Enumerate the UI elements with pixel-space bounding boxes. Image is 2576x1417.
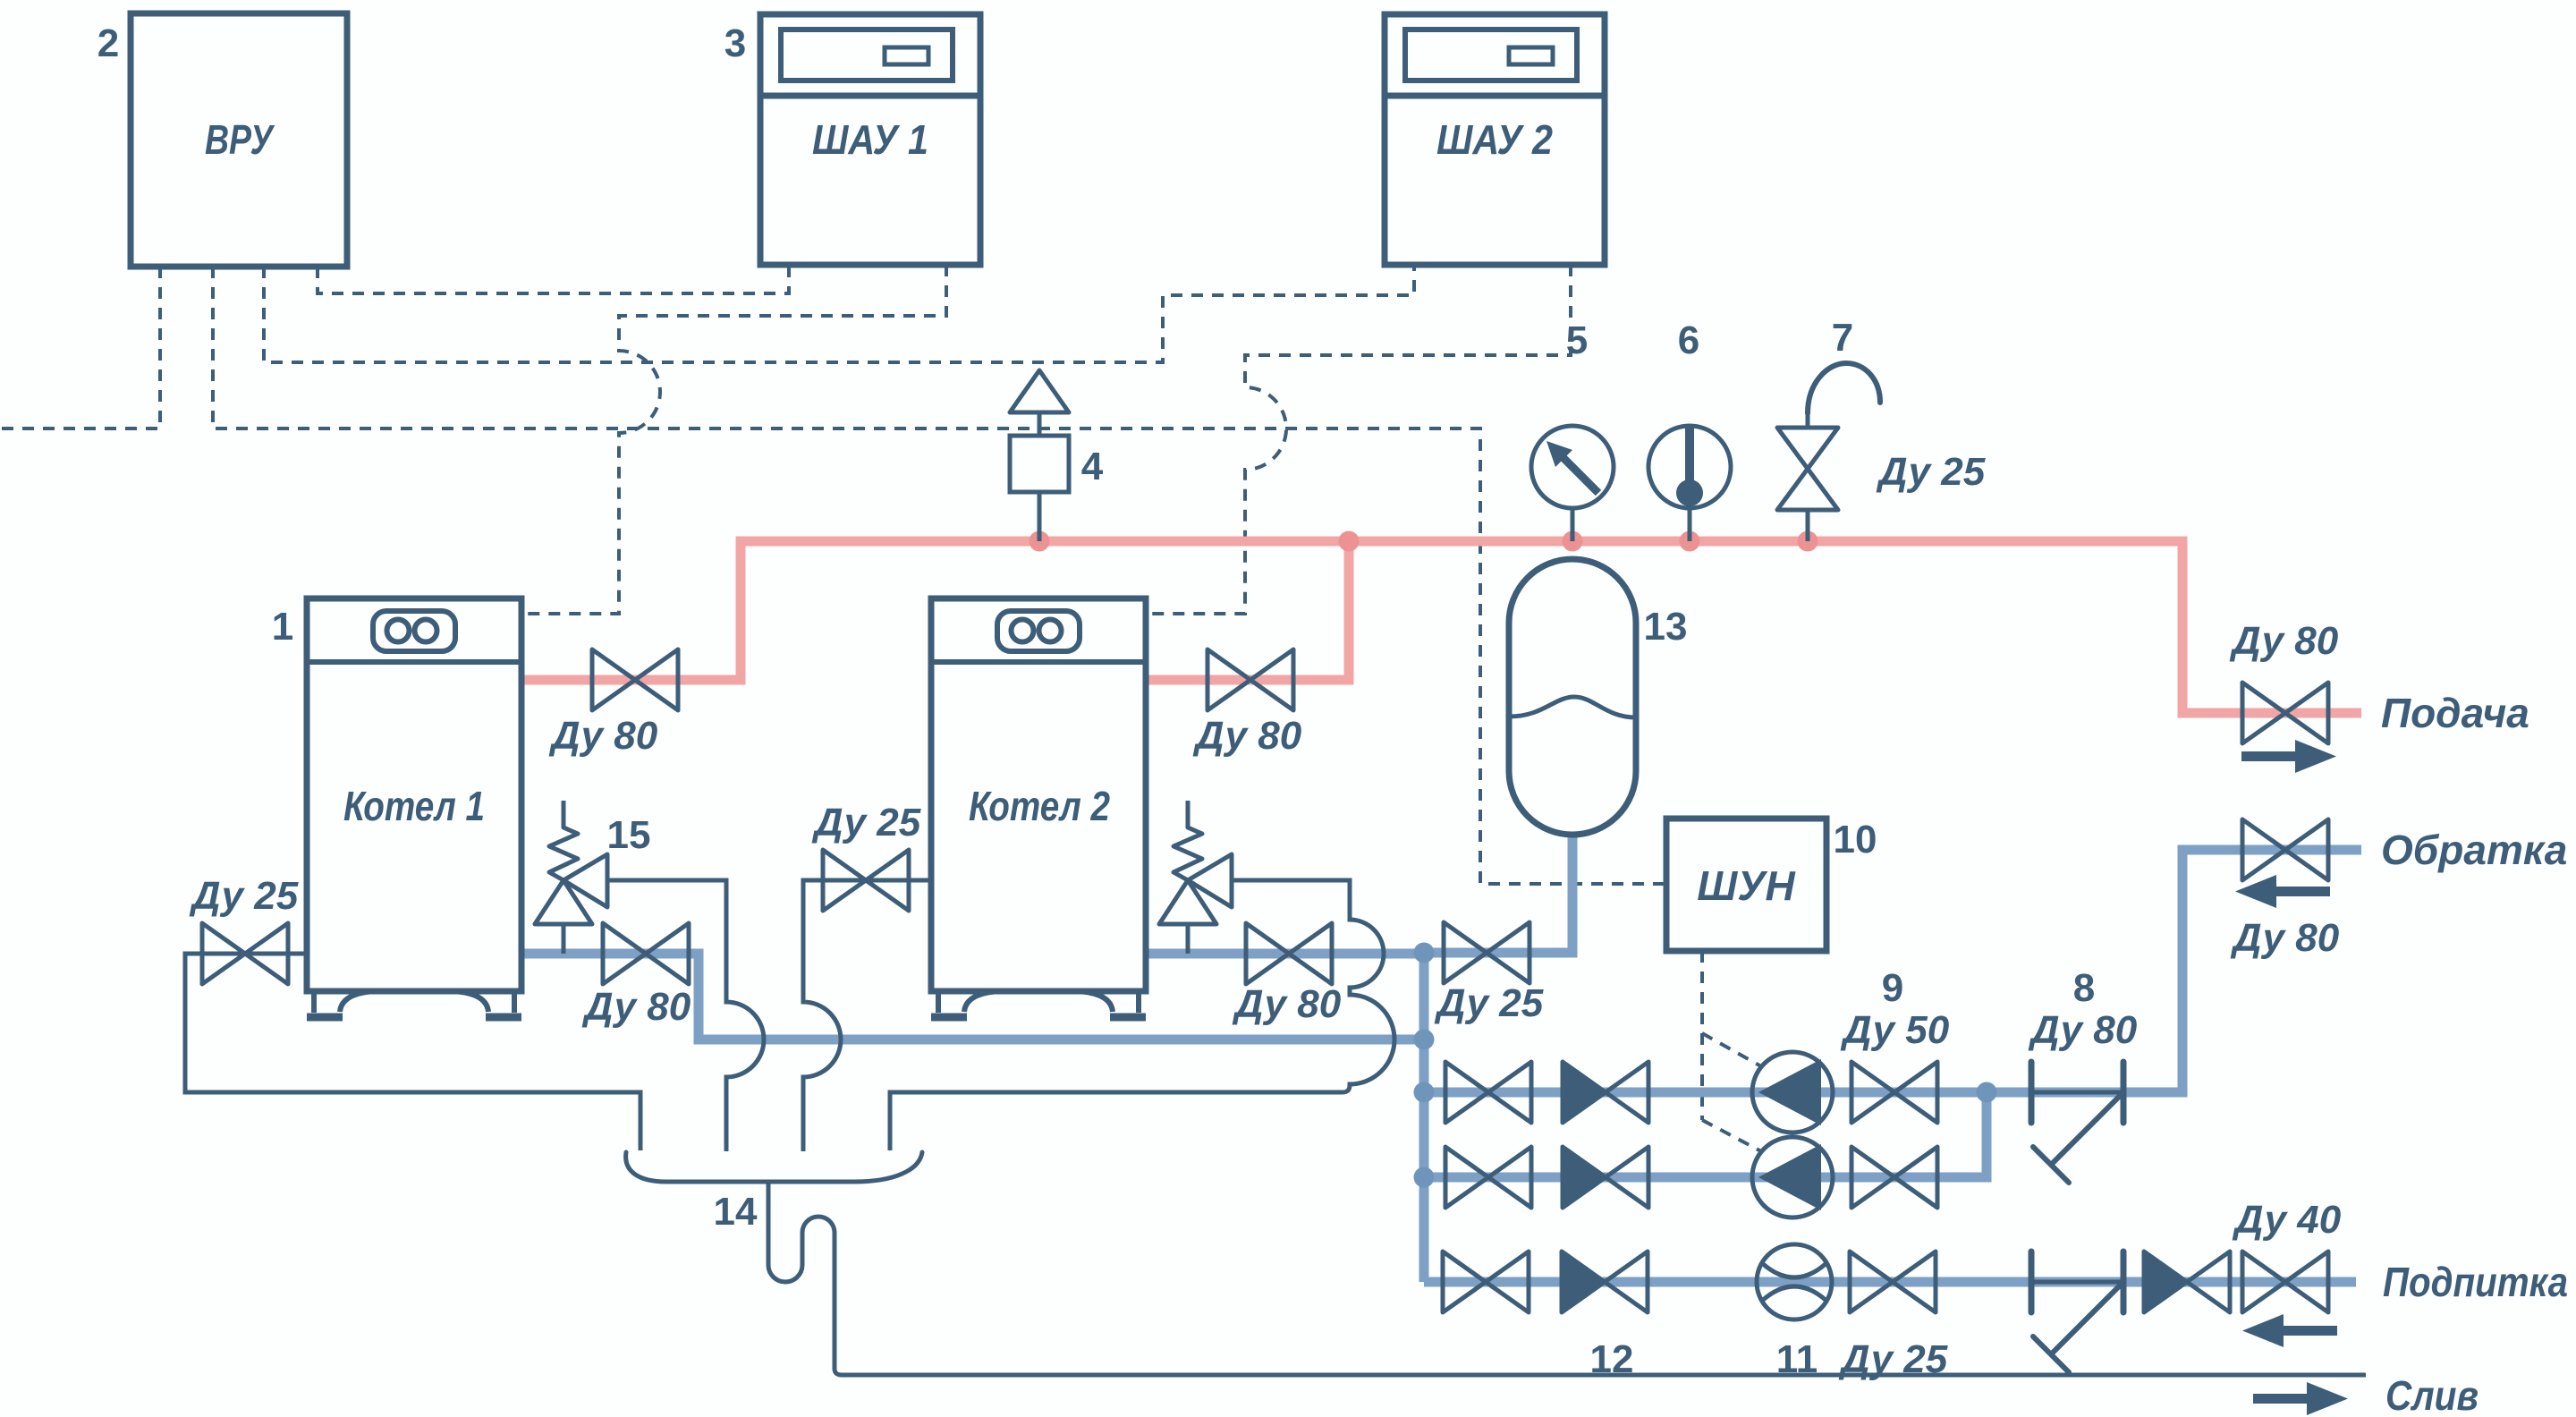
- svg-text:Ду 25: Ду 25: [1838, 1337, 1948, 1381]
- pipe: make-up line Подпитка (blue): [1424, 1277, 2356, 1287]
- svg-text:Котел 1: Котел 1: [343, 783, 485, 829]
- pipe: supply main (red) from boiler 1 riser to Подача outlet: [521, 541, 2361, 713]
- junction dots on red main: [1030, 531, 1818, 552]
- svg-text:15: 15: [607, 813, 651, 857]
- pipe: pump branch 2 (blue): [1424, 1092, 1987, 1177]
- svg-text:4: 4: [1081, 445, 1104, 488]
- svg-text:ШАУ 1: ШАУ 1: [812, 116, 928, 163]
- pump 2: [1752, 1137, 1833, 1218]
- pipe: boiler 2 drain to funnel (hop over blue collector): [803, 880, 933, 1151]
- boiler 1 (pos.1): [307, 598, 521, 1017]
- wire: dashed control line ШУН to pumps: [1700, 951, 1704, 1120]
- pressure gauge (pos.5): [1531, 426, 1614, 541]
- svg-text:3: 3: [724, 21, 746, 65]
- svg-text:Котел 2: Котел 2: [969, 783, 1110, 829]
- expansion vessel (pos.13): [1509, 559, 1636, 835]
- svg-text:ШАУ 2: ШАУ 2: [1436, 116, 1553, 163]
- svg-text:Ду 80: Ду 80: [2229, 619, 2339, 663]
- pipe: boiler 1 drain to funnel (thin): [185, 954, 640, 1150]
- make-up: inlet valve: [2242, 1252, 2328, 1312]
- cabinet ШАУ 2: [1385, 14, 1605, 265]
- pump branch 1: valve Ду50: [1851, 1062, 1937, 1123]
- cabinet ВРУ (pos.2): [131, 13, 347, 267]
- svg-text:Ду 40: Ду 40: [2232, 1198, 2342, 1242]
- svg-text:1: 1: [272, 605, 293, 649]
- wire: dashed control line ШАУ 2 to boiler 2 (hop over crossing line): [1146, 265, 1571, 614]
- svg-text:Ду 80: Ду 80: [1192, 714, 1302, 758]
- pump branch 1: check valve: [1563, 1062, 1648, 1123]
- drain siphon and Слив line: [768, 1182, 2366, 1375]
- pump branch 2: valve: [1851, 1147, 1937, 1208]
- valve Ду80 boiler 2 return: [1246, 923, 1332, 984]
- pipe: boiler 2 return branch (blue): [1146, 949, 1424, 959]
- svg-text:Ду 80: Ду 80: [581, 985, 691, 1029]
- wire: dashed control line ВРУ to ШАУ 1: [318, 265, 789, 293]
- wire: dashed control line ШАУ 1 to boiler 1 (hop over crossing lines): [521, 265, 946, 614]
- svg-text:Ду 80: Ду 80: [548, 714, 658, 758]
- flow meter (pos.11): [1757, 1244, 1832, 1319]
- pipe: pump branch 1 + return outlet Обратка (blue): [1424, 850, 2361, 1092]
- boiler 2: [931, 598, 1146, 1017]
- svg-text:Ду 25: Ду 25: [1876, 450, 1986, 494]
- svg-text:8: 8: [2073, 966, 2095, 1010]
- pipe: boiler 1 safety discharge to funnel (hop over blue collector): [607, 880, 764, 1151]
- drain funnel (pos.14): [626, 1152, 922, 1182]
- pump branch 2: valve: [1445, 1147, 1531, 1208]
- svg-text:Ду 25: Ду 25: [811, 801, 921, 844]
- make-up: valve Ду25: [1850, 1252, 1936, 1312]
- pipe: boiler 1 return + bottom collector (blue): [521, 954, 1424, 1039]
- svg-text:Ду 80: Ду 80: [1232, 982, 1342, 1026]
- svg-text:Ду 50: Ду 50: [1840, 1008, 1950, 1052]
- make-up: valve: [1443, 1252, 1529, 1312]
- pump branch 1: valve: [1445, 1062, 1531, 1123]
- gas valve with handle (pos.7): [1777, 363, 1880, 541]
- pipe: return riser (blue): [1419, 948, 1429, 1282]
- flow arrow Подпитка: [2242, 1314, 2337, 1347]
- pipe: expansion vessel branch (blue): [1424, 835, 1572, 953]
- valve Ду25 boiler 2 drain: [823, 850, 909, 911]
- valve Ду80 boiler 1 return: [603, 923, 689, 984]
- pump branch 2: check valve: [1563, 1147, 1648, 1208]
- cabinet ШАУ 1 (pos.3): [760, 14, 980, 265]
- svg-text:12: 12: [1590, 1337, 1634, 1381]
- thermometer (pos.6): [1648, 426, 1731, 541]
- svg-text:7: 7: [1832, 316, 1853, 360]
- svg-text:Ду 25: Ду 25: [189, 874, 299, 918]
- svg-text:Ду 25: Ду 25: [1434, 981, 1544, 1025]
- svg-text:Слив: Слив: [2385, 1372, 2479, 1417]
- svg-text:ШУН: ШУН: [1697, 862, 1795, 909]
- make-up: flanged check valve: [2031, 1252, 2123, 1372]
- valve Ду80 return inlet: [2242, 819, 2328, 880]
- svg-text:11: 11: [1776, 1337, 1818, 1381]
- svg-text:Подпитка: Подпитка: [2383, 1259, 2568, 1305]
- svg-text:2: 2: [97, 21, 119, 65]
- flanged check valve (pos.8): [2031, 1062, 2123, 1183]
- svg-text:Ду 80: Ду 80: [2230, 916, 2340, 960]
- flow arrow Обратка: [2235, 875, 2330, 908]
- cabinet ШУН (pos.10): [1666, 819, 1826, 951]
- safety valve 15 boiler 1: [535, 801, 607, 954]
- wire: dashed control line ВРУ to ШУН cabinet: [213, 267, 1666, 884]
- svg-text:Ду 80: Ду 80: [2028, 1008, 2138, 1052]
- svg-text:14: 14: [714, 1190, 758, 1234]
- valve Ду25 vessel branch: [1444, 922, 1529, 983]
- flow arrow Подача: [2241, 740, 2336, 773]
- svg-text:Подача: Подача: [2381, 690, 2529, 736]
- valve Ду80 boiler 2 supply: [1207, 649, 1293, 710]
- wire: dashed control line ВРУ to ШАУ 2: [264, 265, 1414, 362]
- svg-text:10: 10: [1834, 818, 1877, 861]
- valve Ду80 boiler 1 supply: [592, 649, 678, 710]
- air vent with isolating box (pos.4): [1010, 370, 1069, 541]
- svg-text:6: 6: [1678, 318, 1699, 362]
- valve Ду25 boiler 1 drain: [202, 923, 288, 984]
- svg-text:9: 9: [1882, 966, 1903, 1010]
- make-up: check valve (pos.12): [1562, 1252, 1648, 1312]
- svg-text:13: 13: [1644, 605, 1688, 649]
- pipe: boiler 2 safety discharge to funnel (двойной hop): [890, 880, 1394, 1150]
- junction dots on blue return: [1414, 943, 1997, 1188]
- wire: dashed control line ВРУ left out: [0, 267, 160, 428]
- pipe: boiler 2 red riser: [1146, 541, 1349, 680]
- svg-text:5: 5: [1566, 318, 1588, 362]
- flow arrow Слив: [2253, 1382, 2348, 1415]
- svg-text:ВРУ: ВРУ: [205, 116, 275, 163]
- make-up: check valve Ду40: [2144, 1252, 2230, 1312]
- pump 1 (pos.9): [1752, 1052, 1833, 1133]
- safety valve boiler 2: [1159, 801, 1232, 954]
- valve Ду80 supply outlet: [2242, 683, 2328, 743]
- svg-text:Обратка: Обратка: [2381, 827, 2567, 873]
